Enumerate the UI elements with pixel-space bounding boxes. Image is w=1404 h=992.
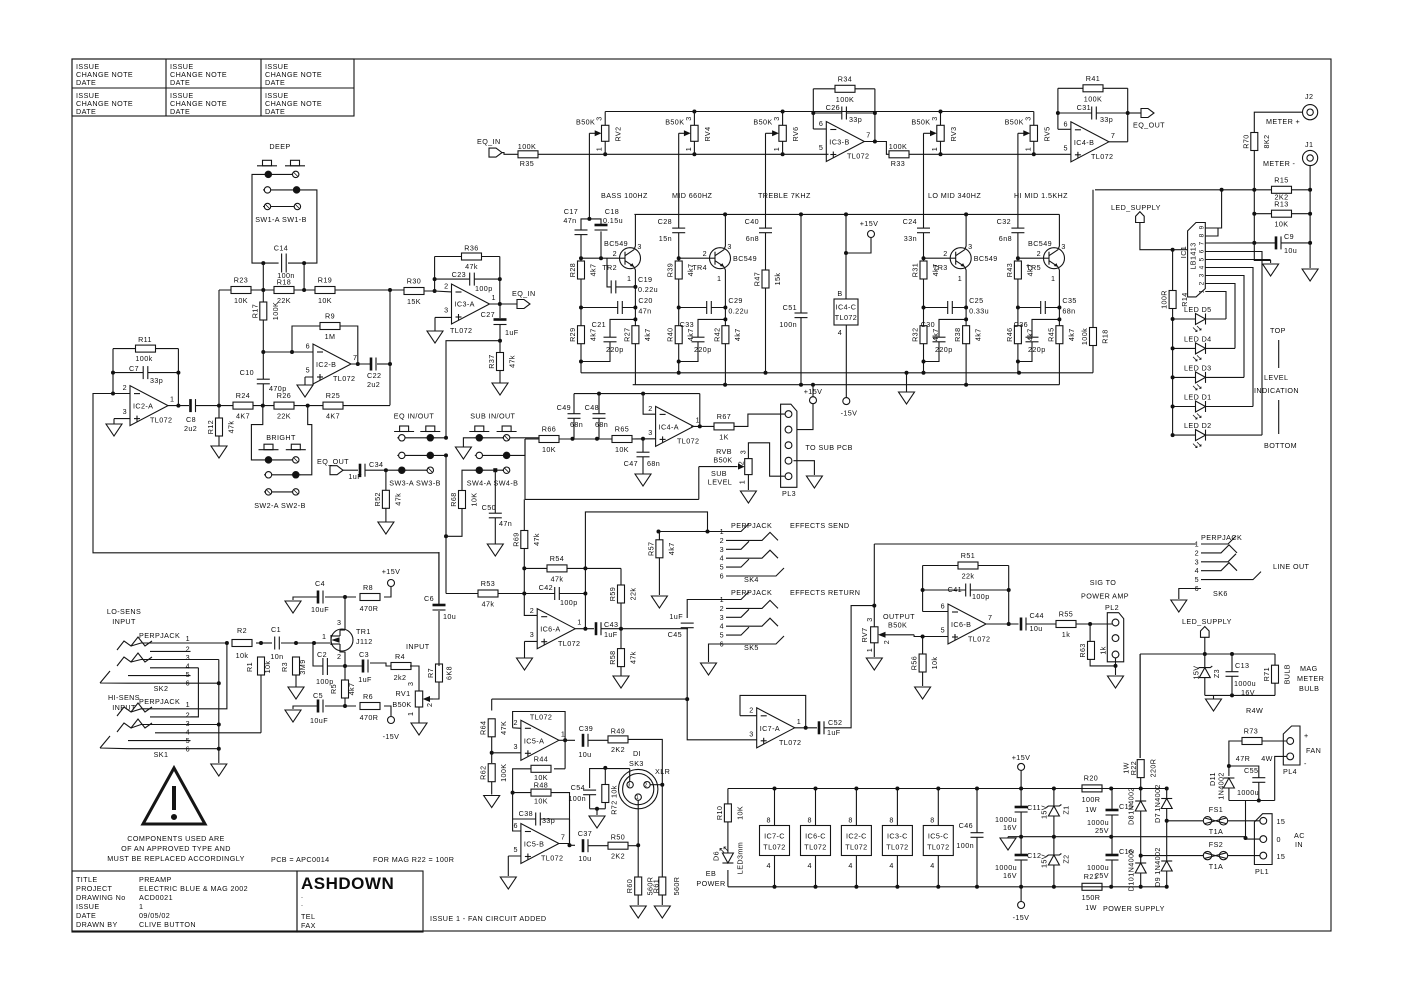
wire: [1278, 340, 1280, 368]
svg-text:4W: 4W: [1261, 754, 1273, 763]
svg-text:C32: C32: [997, 217, 1011, 226]
+15V terminal: [384, 587, 391, 597]
svg-text:R4W: R4W: [1246, 706, 1263, 715]
capacitor C21: [592, 320, 624, 354]
svg-text:RV6: RV6: [791, 126, 800, 141]
svg-text:C28: C28: [658, 217, 672, 226]
junction: [723, 212, 727, 216]
svg-text:10K: 10K: [615, 445, 629, 454]
op-amp IC4-B: [1063, 119, 1115, 162]
svg-text:3: 3: [406, 682, 415, 686]
wire: [589, 739, 609, 741]
svg-text:10u: 10u: [578, 750, 591, 759]
junction: [964, 317, 968, 321]
capacitor C17: [563, 207, 587, 235]
wire: [1205, 654, 1275, 695]
svg-text:EQ_OUT: EQ_OUT: [1133, 121, 1165, 130]
svg-text:1: 1: [186, 634, 190, 643]
svg-text:R62: R62: [479, 766, 488, 780]
junction: [1171, 248, 1175, 252]
svg-text:METER: METER: [1297, 674, 1324, 683]
resistor R47: [753, 270, 783, 288]
resistor R28: [568, 261, 598, 279]
terminal LED_SUPPLY: [1111, 203, 1161, 223]
svg-text:RV3: RV3: [949, 126, 958, 141]
junction: [1257, 799, 1261, 803]
ground: [487, 544, 503, 556]
junction: [225, 641, 229, 645]
svg-text:10K: 10K: [542, 445, 556, 454]
resistor R14: [1160, 290, 1190, 309]
svg-text:R53: R53: [481, 579, 495, 588]
IC IC1 LB1413: [1179, 223, 1205, 297]
wire: [1229, 741, 1242, 776]
svg-text:SW4-A SW4-B: SW4-A SW4-B: [467, 478, 519, 487]
capacitor C43: [595, 620, 619, 639]
svg-text:4k7: 4k7: [974, 328, 983, 341]
wire: [1058, 128, 1071, 130]
junction: [1019, 835, 1023, 839]
svg-text:R58: R58: [608, 650, 617, 664]
junction: [677, 256, 681, 260]
capacitor C27: [481, 310, 519, 337]
wire: [525, 439, 699, 499]
svg-text:C26: C26: [826, 103, 840, 112]
svg-text:T1A: T1A: [1209, 827, 1223, 836]
svg-text:D7: D7: [1153, 813, 1162, 823]
svg-text:100K: 100K: [518, 142, 536, 151]
ground: [211, 764, 227, 776]
resistor R11: [135, 335, 155, 363]
capacitor C6: [424, 594, 456, 621]
junction: [939, 152, 943, 156]
svg-text:100K: 100K: [499, 764, 508, 782]
svg-text:6: 6: [513, 821, 517, 830]
junction: [1171, 317, 1175, 321]
junction: [1171, 405, 1175, 409]
junction: [384, 468, 388, 472]
svg-text:-15V: -15V: [383, 732, 400, 741]
svg-text:150R: 150R: [1082, 893, 1101, 902]
wire: [113, 348, 178, 350]
svg-text:TEL: TEL: [301, 912, 315, 921]
svg-text:4k7: 4k7: [686, 264, 695, 277]
resistor R7: [426, 664, 454, 682]
wire: [377, 363, 390, 365]
svg-text:+15V: +15V: [382, 567, 401, 576]
svg-text:R48: R48: [534, 780, 548, 789]
junction: [563, 738, 567, 742]
wire TR1 source down: [340, 650, 345, 680]
wire: [906, 373, 908, 392]
svg-text:IC3-C: IC3-C: [887, 832, 908, 841]
resistor R39: [666, 261, 696, 279]
op-amp IC5-A: [513, 713, 565, 761]
resistor R71: [1262, 664, 1292, 684]
svg-text:R24: R24: [236, 391, 250, 400]
svg-text:5: 5: [513, 845, 517, 854]
diode D10: [1127, 849, 1147, 891]
junction: [1165, 819, 1169, 823]
svg-text:1W: 1W: [1085, 903, 1097, 912]
svg-text:R12: R12: [206, 420, 215, 434]
wire: [1140, 223, 1173, 250]
capacitor C33: [680, 320, 712, 354]
resistor R70: [1241, 133, 1271, 151]
junction: [723, 383, 727, 387]
capacitor C46: [956, 821, 983, 850]
wire: [559, 819, 570, 845]
svg-text:FAN: FAN: [1306, 746, 1321, 755]
svg-text:J1: J1: [1305, 140, 1313, 149]
svg-text:C54: C54: [571, 783, 585, 792]
wire: [923, 589, 1009, 591]
wire: [628, 845, 638, 847]
svg-text:C47: C47: [624, 459, 638, 468]
svg-text:560R: 560R: [672, 877, 681, 896]
wire: [923, 611, 948, 613]
ground R3: [288, 687, 304, 699]
svg-text:B50K: B50K: [576, 118, 595, 127]
svg-text:10u: 10u: [1284, 246, 1297, 255]
svg-text:3: 3: [720, 545, 724, 554]
svg-text:R26: R26: [277, 391, 291, 400]
power terminal -15V: [1013, 902, 1030, 923]
svg-text:TL072: TL072: [804, 843, 826, 852]
wire: [113, 394, 130, 425]
op-amp IC4-A: [648, 404, 700, 447]
zener Z3: [1192, 666, 1222, 680]
svg-text:IC7-C: IC7-C: [764, 832, 785, 841]
junction: [1019, 787, 1023, 791]
svg-text:FS1: FS1: [1209, 805, 1223, 814]
svg-text:R13: R13: [1274, 200, 1288, 209]
junction: [290, 350, 294, 354]
wire: [1205, 259, 1270, 261]
resistor R48: [531, 780, 551, 805]
wire: [643, 394, 656, 415]
junction: [811, 111, 815, 115]
wire: [923, 565, 1009, 567]
svg-text:5: 5: [1063, 143, 1067, 152]
svg-text:R30: R30: [407, 277, 421, 286]
svg-text:1N4002: 1N4002: [1127, 849, 1136, 877]
svg-text:R36: R36: [464, 244, 478, 253]
svg-text:33p: 33p: [150, 376, 163, 385]
title block: [72, 871, 423, 932]
svg-text:1N4002: 1N4002: [1217, 772, 1226, 800]
wire: [1166, 789, 1168, 887]
capacitor C29: [707, 296, 749, 316]
wire: [1092, 190, 1094, 373]
wire: [492, 752, 521, 754]
wire: [941, 153, 1071, 155]
svg-text:2: 2: [513, 718, 517, 727]
svg-text:8: 8: [808, 816, 812, 825]
wire: [574, 394, 599, 439]
wire collector: [965, 214, 966, 249]
junction: [587, 217, 591, 221]
junction: [1114, 664, 1118, 668]
resistor R29: [568, 326, 598, 344]
junction: [1171, 433, 1175, 437]
wire collector: [1058, 214, 1059, 249]
junction: [1088, 622, 1092, 626]
capacitor C34: [348, 460, 383, 481]
svg-text:22K: 22K: [277, 412, 291, 421]
junction: [597, 392, 601, 396]
svg-text:3: 3: [720, 613, 724, 622]
svg-text:TL072: TL072: [558, 639, 580, 648]
svg-text:C14: C14: [274, 244, 288, 253]
svg-text:IC6-B: IC6-B: [951, 620, 971, 629]
svg-text:100K: 100K: [889, 142, 907, 151]
svg-text:POWER: POWER: [696, 879, 725, 888]
svg-text:3: 3: [123, 407, 127, 416]
ground: [297, 385, 313, 397]
svg-text:10K: 10K: [534, 797, 548, 806]
junction: [1171, 375, 1175, 379]
svg-text:6: 6: [1063, 119, 1067, 128]
svg-text:6n8: 6n8: [999, 234, 1012, 243]
svg-text:47k: 47k: [482, 600, 495, 609]
wire: [292, 326, 358, 364]
op-amp IC6-C power: [801, 789, 831, 887]
svg-text:EQ IN/OUT: EQ IN/OUT: [394, 412, 435, 421]
svg-text:D10: D10: [1127, 877, 1136, 891]
junction: [261, 404, 265, 408]
svg-text:1: 1: [170, 395, 174, 404]
svg-text:+: +: [1304, 731, 1309, 740]
resistor R25: [323, 391, 343, 421]
ground: [500, 877, 516, 889]
svg-text:100n: 100n: [779, 320, 797, 329]
junction: [844, 251, 848, 255]
resistor R22: [1122, 759, 1158, 778]
wire: [1205, 284, 1235, 349]
wire: [524, 567, 621, 569]
svg-text:1uF: 1uF: [348, 472, 362, 481]
resistor R13: [1272, 200, 1292, 229]
wire: [1053, 837, 1055, 887]
wire: [1228, 820, 1260, 822]
capacitor C48: [585, 403, 609, 429]
svg-text:5: 5: [306, 366, 310, 375]
svg-text:R72 10k: R72 10k: [610, 785, 619, 815]
wire jack bus: [218, 660, 220, 764]
svg-text:100p: 100p: [972, 592, 990, 601]
wire normalling: [191, 643, 227, 709]
transistor TR5 BC549: [1026, 239, 1066, 283]
resistor R18: [1080, 328, 1110, 346]
wire: [699, 394, 701, 427]
svg-text:PERPJACK: PERPJACK: [139, 697, 180, 706]
svg-text:47k: 47k: [393, 493, 402, 506]
svg-text:SUB IN/OUT: SUB IN/OUT: [470, 412, 515, 421]
resistor R61: [651, 877, 681, 896]
capacitor C25: [948, 296, 989, 316]
svg-text:4k7: 4k7: [667, 542, 676, 555]
svg-text:D9: D9: [1153, 877, 1162, 887]
resistor R54: [547, 554, 567, 584]
svg-text:R15: R15: [1274, 175, 1288, 184]
ground: [1302, 269, 1318, 281]
junction: [1139, 854, 1143, 858]
svg-text:LED D3: LED D3: [1184, 363, 1212, 372]
svg-text:2: 2: [720, 604, 724, 613]
svg-text:C21: C21: [592, 320, 606, 329]
svg-text:C1: C1: [271, 625, 281, 634]
svg-text:B50K: B50K: [392, 700, 411, 709]
resistor R53: [478, 579, 498, 609]
wire: [1205, 268, 1253, 407]
wire: [923, 133, 925, 258]
svg-text:1M: 1M: [325, 332, 336, 341]
junction: [636, 843, 640, 847]
svg-text:R6: R6: [363, 692, 373, 701]
wire: [168, 405, 189, 407]
wire: [909, 153, 941, 155]
svg-text:R7: R7: [426, 668, 435, 678]
junction: [583, 566, 587, 570]
svg-text:R19: R19: [318, 276, 332, 285]
svg-text:1: 1: [636, 795, 639, 801]
svg-text:4: 4: [889, 861, 893, 870]
svg-text:R47: R47: [753, 272, 762, 286]
capacitor C37: [578, 829, 592, 863]
svg-text:33n: 33n: [904, 234, 917, 243]
svg-text:BULB: BULB: [1283, 664, 1292, 684]
wire: [196, 405, 233, 407]
op-amp IC4-C: [834, 289, 858, 337]
svg-text:100p: 100p: [560, 598, 578, 607]
op-amp IC6-A: [530, 606, 582, 649]
junction: [921, 635, 925, 639]
svg-text:RV2: RV2: [614, 126, 623, 141]
svg-text:IC4-B: IC4-B: [1074, 138, 1094, 147]
switch SW2 BRIGHT: [251, 406, 311, 510]
svg-text:EQ_IN: EQ_IN: [477, 137, 501, 146]
op-amp IC3-B: [819, 119, 871, 162]
svg-text:16V: 16V: [1241, 688, 1255, 697]
wire: [923, 566, 1009, 625]
ground: [654, 906, 670, 918]
junction: [1171, 346, 1175, 350]
svg-text:10K: 10K: [735, 806, 744, 820]
junction: [261, 261, 265, 265]
svg-text:2: 2: [1037, 249, 1041, 258]
svg-text:47R: 47R: [1236, 754, 1250, 763]
terminal LED_SUPPLY: [1182, 617, 1232, 637]
svg-text:PCB = APC0014: PCB = APC0014: [271, 855, 330, 864]
svg-text:2: 2: [1195, 548, 1199, 557]
svg-text:DATE: DATE: [76, 107, 96, 116]
svg-text:LEVEL: LEVEL: [1264, 373, 1288, 382]
power terminal +15V: [1012, 753, 1031, 770]
capacitor C32: [997, 217, 1025, 243]
svg-text:C18: C18: [605, 207, 619, 216]
ground: [651, 596, 667, 608]
svg-text:R56: R56: [910, 656, 919, 670]
svg-text:470R: 470R: [360, 604, 379, 613]
svg-text:10uF: 10uF: [310, 716, 328, 725]
op-amp IC3-C power: [882, 789, 912, 887]
svg-text:R43: R43: [1005, 263, 1014, 277]
svg-text:ASHDOWN: ASHDOWN: [301, 874, 394, 893]
junction: [1227, 764, 1231, 768]
svg-text:C50: C50: [482, 503, 496, 512]
svg-text:IC3-A: IC3-A: [455, 300, 475, 309]
resistor R50: [608, 833, 628, 861]
svg-text:-15V: -15V: [1013, 913, 1030, 922]
wire R5 to C5/R6: [345, 698, 356, 706]
junction: [294, 641, 298, 645]
svg-text:3: 3: [648, 428, 652, 437]
svg-text:220p: 220p: [694, 345, 712, 354]
svg-text:R4: R4: [395, 652, 405, 661]
svg-text:0: 0: [1277, 835, 1281, 844]
svg-text:1: 1: [865, 648, 874, 652]
wire: [1020, 837, 1022, 887]
svg-text:MID 660HZ: MID 660HZ: [672, 191, 713, 200]
svg-text:T1A: T1A: [1209, 862, 1223, 871]
resistor R23: [231, 276, 251, 306]
svg-text:C39: C39: [579, 724, 593, 733]
svg-text:IC5-C: IC5-C: [928, 832, 949, 841]
wire: [494, 470, 496, 544]
svg-text:C13: C13: [1235, 661, 1249, 670]
svg-text:R59: R59: [608, 587, 617, 601]
wire: [502, 153, 518, 155]
svg-text:LEVEL: LEVEL: [708, 478, 732, 487]
svg-text:R37: R37: [487, 354, 496, 368]
wire: [559, 739, 575, 741]
svg-text:POWER AMP: POWER AMP: [1081, 592, 1129, 601]
wire: [728, 886, 1167, 888]
svg-text:47n: 47n: [638, 307, 651, 316]
svg-text:R51: R51: [961, 551, 975, 560]
wire: [510, 437, 539, 439]
wire: [435, 256, 500, 258]
wire: [446, 593, 478, 595]
resistor R26: [274, 391, 294, 421]
svg-text:6: 6: [306, 342, 310, 351]
wire: [1053, 789, 1055, 837]
svg-text:R66: R66: [542, 425, 556, 434]
wire: [538, 153, 829, 155]
wire: [445, 455, 447, 593]
terminal EQ_OUT: [1133, 109, 1165, 130]
wire: [385, 470, 387, 522]
svg-text:6: 6: [941, 602, 945, 611]
fuse FS2: [1203, 840, 1227, 871]
wire: [642, 439, 644, 474]
svg-text:R54: R54: [550, 554, 564, 563]
junction: [1203, 652, 1207, 656]
svg-text:5: 5: [720, 563, 724, 572]
junction: [936, 787, 940, 791]
svg-text:R69: R69: [511, 532, 520, 546]
svg-text:0.22u: 0.22u: [638, 285, 658, 294]
wire: [1128, 112, 1141, 114]
svg-text:100k: 100k: [135, 354, 152, 363]
ground: [613, 676, 629, 688]
svg-text:15k: 15k: [773, 273, 782, 286]
wire: [305, 377, 313, 385]
LED D1: [1173, 393, 1253, 420]
warning triangle: [107, 768, 245, 863]
svg-text:4: 4: [1198, 265, 1205, 269]
